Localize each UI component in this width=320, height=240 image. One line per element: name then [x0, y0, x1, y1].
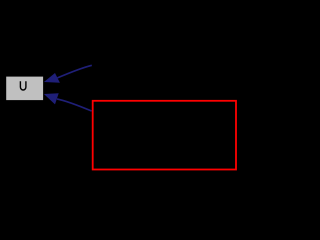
wire: lower edge line	[57, 99, 92, 111]
upper arrowhead	[44, 73, 60, 83]
label U	[20, 81, 26, 90]
wire: upper edge line	[57, 65, 91, 78]
node U box	[6, 77, 43, 101]
truncated node (red rectangle)	[93, 101, 236, 170]
lower arrowhead	[44, 93, 59, 104]
